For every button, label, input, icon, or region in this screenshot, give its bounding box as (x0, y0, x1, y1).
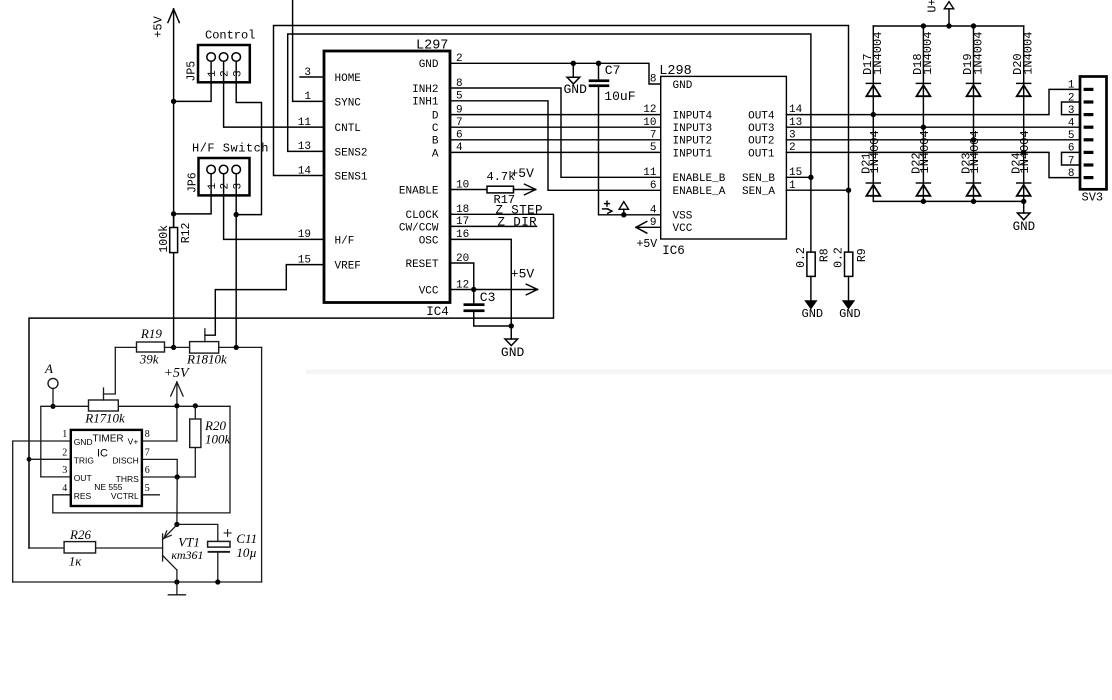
svg-text:CLOCK: CLOCK (405, 210, 438, 222)
svg-text:GND: GND (673, 80, 693, 92)
wire SV3 jumper pins 6-7 (1062, 152, 1081, 165)
svg-text:+5V: +5V (511, 267, 535, 282)
IC NE555 timer box (71, 430, 142, 506)
svg-text:A: A (432, 148, 439, 160)
svg-text:TRIG: TRIG (74, 456, 94, 466)
svg-text:10: 10 (643, 117, 656, 129)
svg-text:+5V: +5V (637, 238, 658, 251)
wire VCTRL stub (142, 494, 159, 496)
node: junction +5V / JP5 pin1 (171, 99, 176, 104)
svg-text:1N4004: 1N4004 (1022, 32, 1036, 75)
trimmer R17 10k (89, 400, 119, 411)
power +5V arrow (555) (176, 382, 178, 441)
svg-text:5: 5 (650, 142, 657, 154)
svg-text:JP5: JP5 (186, 61, 199, 82)
svg-text:1N4004: 1N4004 (918, 130, 932, 173)
svg-text:10uF: 10uF (604, 89, 635, 104)
svg-text:6: 6 (650, 180, 657, 192)
svg-text:SENS1: SENS1 (335, 171, 368, 183)
wire B to INPUT2 (450, 139, 661, 141)
svg-text:VSS: VSS (673, 211, 693, 223)
svg-text:RES: RES (74, 491, 92, 501)
svg-text:4: 4 (650, 204, 657, 216)
plus-hook mark (605, 203, 610, 205)
svg-text:CW/CCW: CW/CCW (399, 222, 439, 234)
transistor VT1 kt361 (162, 534, 164, 561)
svg-text:D: D (432, 111, 439, 123)
svg-text:10k: 10k (208, 351, 227, 366)
connector JP6 H/F Switch (199, 158, 250, 195)
wire RESET to VCC (450, 263, 474, 290)
svg-text:SEN_B: SEN_B (742, 173, 775, 185)
svg-text:THRS: THRS (116, 474, 139, 484)
trimmer R18 10k (174, 346, 190, 348)
emitter arrow (164, 531, 171, 538)
svg-text:Z_DIR: Z_DIR (498, 216, 538, 230)
svg-text:4: 4 (1068, 118, 1075, 130)
svg-text:10µ: 10µ (236, 545, 257, 560)
wire VREF to R18 wiper (205, 265, 324, 336)
svg-text:IC4: IC4 (426, 305, 449, 319)
node rowW/R20 (193, 403, 198, 408)
svg-text:3: 3 (232, 70, 244, 77)
capacitor C11 10u (208, 541, 230, 547)
SV3 pin 7 (1084, 163, 1094, 166)
svg-text:VCTRL: VCTRL (111, 491, 139, 501)
svg-text:INPUT4: INPUT4 (673, 111, 713, 123)
svg-text:+5V: +5V (152, 15, 166, 37)
wire TRIG/R26 left rail (28, 318, 30, 548)
svg-text:CNTL: CNTL (335, 123, 361, 135)
svg-text:OUT2: OUT2 (748, 136, 774, 148)
node emitter/gnd (174, 579, 179, 584)
svg-text:100k: 100k (205, 432, 231, 447)
svg-text:2: 2 (62, 448, 67, 459)
svg-text:VREF: VREF (335, 261, 361, 273)
svg-text:SENS2: SENS2 (335, 147, 368, 159)
svg-text:1: 1 (207, 183, 219, 190)
svg-text:1N4004: 1N4004 (921, 32, 935, 75)
SV3 pin 3 (1084, 113, 1094, 116)
svg-text:2: 2 (220, 183, 232, 190)
diode D17 1N4004 (872, 26, 874, 201)
svg-text:GND: GND (74, 437, 93, 447)
wire base (96, 547, 163, 549)
svg-text:11: 11 (643, 167, 657, 179)
node OSC/C3 (509, 323, 514, 328)
svg-text:B: B (432, 136, 439, 148)
wire JP6.2 to H/F (224, 174, 324, 240)
wire collector node to C11 (177, 477, 218, 541)
SV3 pin 6 (1084, 151, 1094, 154)
svg-text:SV3: SV3 (1082, 191, 1104, 205)
wire right rail down to gnd bus (261, 347, 263, 582)
svg-text:TIMER: TIMER (93, 433, 124, 444)
svg-text:U+: U+ (927, 0, 940, 13)
svg-text:10k: 10k (106, 411, 125, 426)
wire JP6.3 down to R18 node (235, 174, 237, 348)
wire THRS stub (142, 476, 195, 478)
diode D21 1N4004 (866, 182, 880, 184)
node GND/gnd-symbol (571, 61, 576, 66)
svg-text:1: 1 (1068, 80, 1075, 92)
svg-text:INH2: INH2 (412, 84, 438, 96)
svg-text:L297: L297 (416, 39, 448, 54)
svg-text:1к: 1к (69, 554, 83, 569)
node SEN_A (846, 188, 851, 193)
node collector (174, 522, 179, 527)
wire top diode bus (873, 25, 1023, 27)
ground symbol near C7 (572, 63, 574, 77)
svg-text:1N4004: 1N4004 (871, 32, 885, 75)
svg-text:3: 3 (232, 183, 244, 190)
svg-text:L298: L298 (659, 64, 691, 79)
svg-text:SYNC: SYNC (335, 97, 362, 109)
wire V+ stub (142, 440, 177, 442)
wire JP6.1 to +5V (174, 174, 212, 214)
wire SEN_A to R9 (786, 189, 848, 191)
svg-text:H/F Switch: H/F Switch (192, 141, 269, 155)
wire JP5.2 to CNTL (224, 61, 324, 127)
wire SYNC from top edge (293, 0, 324, 101)
svg-text:11: 11 (298, 117, 312, 129)
svg-text:1N4004: 1N4004 (968, 130, 982, 173)
node GND/C7 (596, 61, 601, 66)
svg-text:JP6: JP6 (187, 172, 200, 193)
diode D24 1N4004 (1017, 182, 1031, 184)
svg-text:GND: GND (564, 82, 588, 97)
svg-text:39k: 39k (139, 351, 159, 366)
svg-text:Control: Control (205, 29, 255, 43)
node SEN_B (808, 175, 813, 180)
SV3 pin 5 (1084, 138, 1094, 141)
diode D22 1N4004 (916, 182, 930, 184)
svg-text:ENABLE_A: ENABLE_A (673, 186, 726, 198)
node TRIG rail (27, 457, 32, 462)
wire VCC(9) +5V arrow (636, 226, 661, 228)
svg-text:1: 1 (62, 429, 67, 440)
svg-text:8: 8 (650, 74, 657, 86)
SV3 pin 2 (1084, 100, 1094, 103)
svg-text:кт361: кт361 (171, 548, 203, 562)
svg-text:OSC: OSC (419, 235, 439, 247)
node THRS/DISCH/collector (175, 474, 180, 479)
svg-text:SEN_A: SEN_A (742, 186, 775, 198)
svg-text:DISCH: DISCH (112, 455, 138, 465)
svg-text:C11: C11 (236, 531, 257, 546)
ground symbol diode bus (1023, 201, 1025, 213)
svg-text:GND: GND (1013, 220, 1036, 234)
wire INH1 to ENABLE_A (450, 101, 661, 191)
svg-text:OUT: OUT (74, 473, 92, 483)
power +5V arrow top-left (173, 9, 175, 347)
svg-text:8: 8 (1068, 168, 1075, 180)
wire JP5.1 to +5V (174, 61, 212, 101)
node rowW/V+ column (174, 403, 179, 408)
node JP5.3/JP6.3 (234, 212, 239, 217)
wire VCC +5V arrow (450, 289, 538, 291)
svg-text:5: 5 (1068, 130, 1075, 142)
wire GND net L297 pin2 to L298 pin8 (450, 63, 661, 84)
node VCC/RESET/C3 (471, 287, 476, 292)
svg-text:0.2: 0.2 (795, 247, 808, 268)
svg-text:INPUT2: INPUT2 (673, 136, 713, 148)
svg-text:R17: R17 (84, 411, 106, 426)
wire bottom gnd bus (13, 581, 262, 583)
wire OUT3 to SV3 pin4 (786, 126, 1080, 128)
svg-text:C3: C3 (480, 290, 496, 305)
SV3 pin 1 (1084, 88, 1094, 91)
resistor R20 100k (194, 406, 196, 419)
svg-text:GND: GND (802, 307, 824, 321)
svg-text:1N4004: 1N4004 (971, 32, 985, 75)
svg-text:INH1: INH1 (412, 97, 439, 109)
svg-text:0.2: 0.2 (832, 247, 845, 268)
wire DISCH to THRS (142, 459, 177, 477)
wire OUT4 to SV3 pin1 (786, 89, 1080, 114)
wire CLOCK / net Z_STEP down to 555 block (29, 214, 554, 548)
svg-text:C7: C7 (605, 63, 621, 78)
svg-text:100k: 100k (158, 225, 171, 253)
svg-text:R18: R18 (186, 351, 208, 366)
node OUT2/D19 (971, 137, 976, 142)
svg-text:R8: R8 (818, 248, 831, 262)
wire SENS2 to SEN_B net (top) (288, 34, 811, 177)
node: junction +5V / JP6 pin1 (171, 211, 176, 216)
svg-text:V+: V+ (128, 437, 139, 447)
wire TRIG stub (29, 458, 71, 460)
SV3 pin 4 (1084, 126, 1094, 129)
resistor R12 100k (173, 214, 175, 228)
svg-text:OUT1: OUT1 (748, 148, 775, 160)
node R19/R12 rail (171, 345, 176, 350)
pin 3 HOME stub (300, 76, 324, 78)
svg-text:OUT4: OUT4 (748, 111, 775, 123)
svg-text:6: 6 (145, 465, 150, 476)
wire JP5.3 (236, 61, 261, 214)
node C11/gnd (215, 579, 220, 584)
connector JP5 Control (198, 45, 250, 82)
faint separator band (306, 370, 1112, 375)
svg-text:C: C (432, 123, 439, 135)
capacitor C7 10uF (598, 63, 600, 79)
svg-text:VCC: VCC (673, 223, 693, 235)
op-amp/IC U: L297 IC4 box (324, 51, 450, 303)
ground symbol (555 block) (176, 582, 178, 595)
wire C7 to VSS L298 (599, 87, 661, 215)
svg-text:ENABLE_B: ENABLE_B (673, 173, 726, 185)
svg-text:5: 5 (145, 483, 150, 494)
svg-text:2: 2 (220, 70, 232, 77)
SV3 pin 8 (1084, 176, 1094, 179)
wire OUT2 to SV3 pin5 (786, 139, 1080, 141)
svg-text:7: 7 (145, 448, 150, 459)
wire row W (OUT/+5V row) (41, 406, 89, 477)
wire OSC to gnd (450, 239, 511, 339)
wire D to INPUT4 (450, 114, 661, 116)
svg-text:1N4004: 1N4004 (1018, 130, 1032, 173)
wire SEN_B to R8 (786, 176, 811, 178)
power arrow at VSS (623, 209, 625, 215)
ground symbol below C3 (505, 339, 518, 346)
wire OUT1 to SV3 pin8 (786, 152, 1080, 177)
node OUT3/D18 (921, 125, 926, 130)
diode D18 1N4004 (922, 26, 924, 201)
node OUT1/D20 (1021, 150, 1026, 155)
svg-text:1N4004: 1N4004 (868, 130, 882, 173)
wire GND pin1 of 555 (13, 441, 71, 582)
svg-text:3: 3 (62, 465, 67, 476)
diode D23 1N4004 (967, 182, 981, 184)
wire bottom diode bus (873, 200, 1023, 202)
wire A to INPUT1 (450, 151, 661, 153)
svg-text:1: 1 (207, 70, 219, 77)
terminal A (48, 378, 58, 388)
svg-text:RESET: RESET (405, 259, 438, 271)
node VSS supply (621, 212, 626, 217)
svg-text:12: 12 (643, 104, 656, 116)
svg-text:GND: GND (501, 345, 525, 360)
svg-text:R9: R9 (856, 248, 869, 262)
node A/rowW (50, 404, 55, 409)
wire CW/CCW net Z_DIR (450, 225, 537, 227)
resistor R17 4.7k + ENABLE pullup (450, 189, 487, 191)
resistor R19 39k (115, 346, 136, 348)
wire SV3 jumper pins 2-3 (1062, 102, 1081, 115)
svg-text:IC6: IC6 (662, 244, 685, 258)
diode D19 1N4004 (973, 26, 975, 201)
capacitor C3 (473, 290, 475, 304)
wire C to INPUT3 (450, 126, 661, 128)
svg-text:INPUT3: INPUT3 (673, 123, 713, 135)
IC L298 IC6 box (661, 76, 787, 239)
svg-text:VCC: VCC (419, 285, 439, 297)
svg-text:7: 7 (650, 129, 657, 141)
svg-text:8: 8 (145, 429, 150, 440)
svg-text:19: 19 (298, 229, 311, 241)
svg-text:+5V: +5V (164, 366, 190, 381)
node OUT4/D17 (871, 112, 876, 117)
svg-text:R19: R19 (140, 326, 162, 341)
svg-text:+5V: +5V (511, 166, 535, 181)
wire RES loop (53, 406, 230, 513)
svg-text:R12: R12 (180, 222, 193, 243)
svg-text:IC: IC (97, 448, 108, 460)
resistor R9 0.2 (848, 190, 850, 252)
wire OUT stub (41, 476, 71, 478)
svg-text:4: 4 (62, 483, 67, 494)
U+ supply arrow (948, 9, 950, 26)
diode D20 1N4004 (1023, 26, 1025, 201)
node R18/JP net (234, 345, 239, 350)
svg-text:GND: GND (419, 59, 439, 71)
svg-text:ENABLE: ENABLE (399, 185, 439, 197)
wire SENS1 to SEN_A net (top) (274, 26, 849, 191)
svg-text:HOME: HOME (335, 73, 362, 85)
svg-text:OUT3: OUT3 (748, 123, 774, 135)
svg-text:H/F: H/F (335, 235, 355, 247)
wire INH2 to ENABLE_B (450, 88, 661, 177)
svg-text:INPUT1: INPUT1 (673, 148, 713, 160)
connector SV3 box (1080, 77, 1107, 190)
resistor R8 0.2 (810, 177, 812, 252)
svg-text:A: A (44, 361, 53, 376)
resistor R26 1k (29, 547, 64, 549)
svg-text:GND: GND (839, 307, 861, 321)
svg-text:R26: R26 (69, 527, 91, 542)
